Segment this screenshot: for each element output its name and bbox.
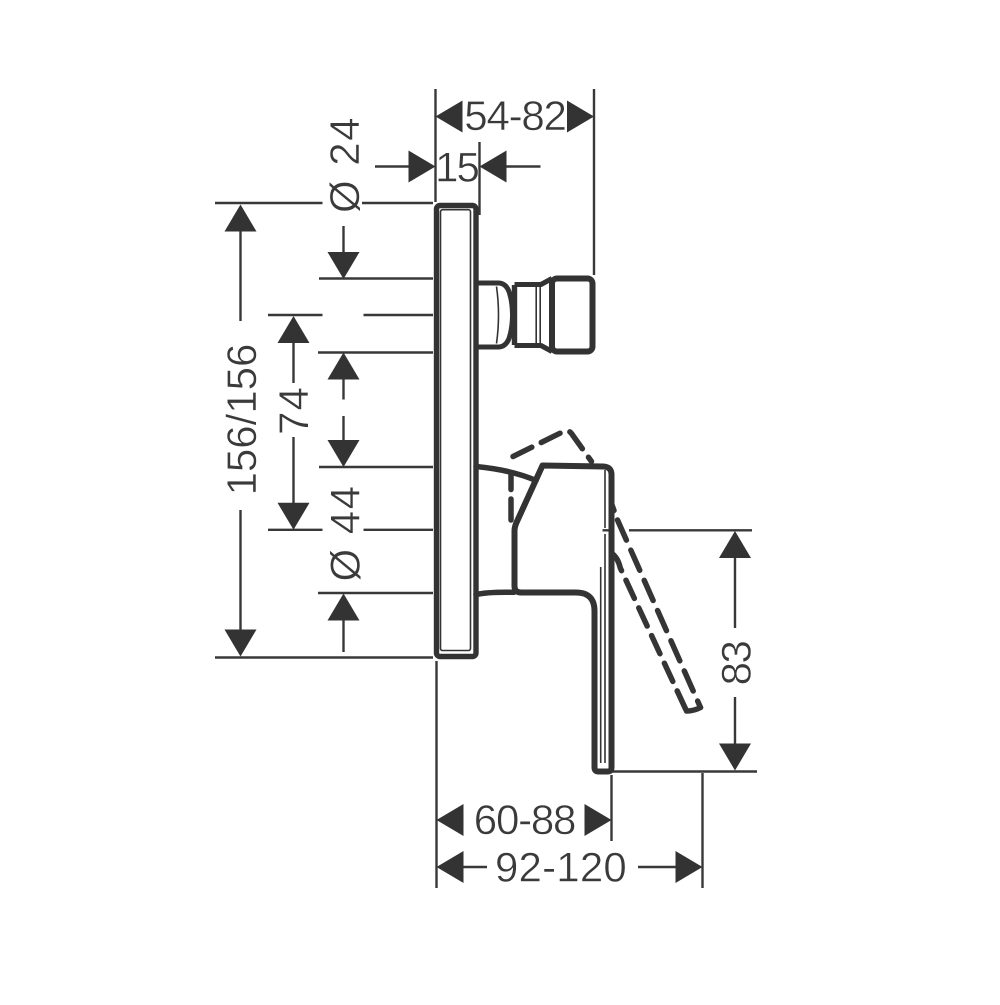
svg-text:83: 83 — [713, 642, 760, 686]
svg-text:156/156: 156/156 — [218, 344, 265, 496]
svg-text:Ø 24: Ø 24 — [321, 116, 368, 213]
svg-text:60-88: 60-88 — [474, 796, 575, 843]
svg-text:Ø 44: Ø 44 — [322, 484, 369, 581]
svg-text:54-82: 54-82 — [464, 92, 565, 139]
svg-text:15: 15 — [435, 144, 478, 191]
svg-text:92-120: 92-120 — [495, 844, 627, 891]
svg-text:74: 74 — [270, 386, 317, 435]
